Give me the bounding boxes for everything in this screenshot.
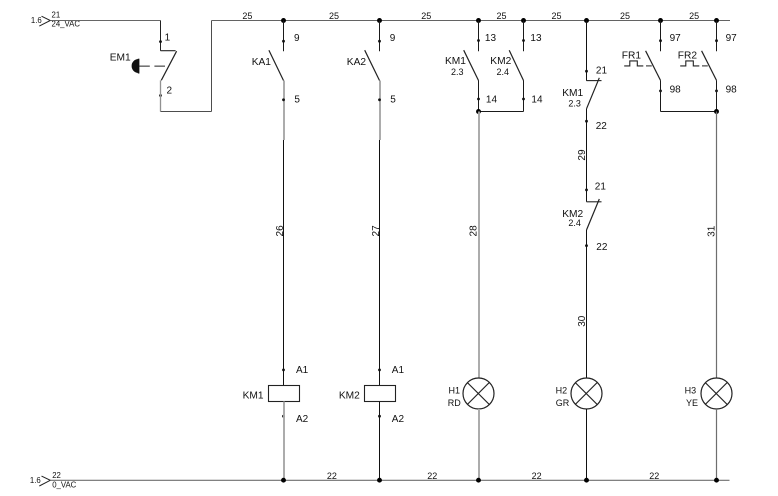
node pin 22 of KM1-NC (585, 120, 588, 123)
svg-text:FR2: FR2 (678, 50, 698, 61)
node pin 21 of KM1-NC (585, 70, 588, 73)
svg-text:25: 25 (620, 11, 630, 21)
svg-text:2: 2 (167, 86, 173, 97)
wire KM1-NO top stub (478, 21, 480, 52)
svg-text:A2: A2 (392, 414, 405, 425)
node pin 22 of KM2-NC (585, 244, 588, 247)
svg-text:5: 5 (390, 95, 396, 106)
node pin 14 of KM1 (477, 98, 480, 101)
svg-text:A1: A1 (296, 365, 309, 376)
svg-text:22: 22 (52, 471, 61, 480)
wire FR2 lower stub (716, 80, 718, 111)
junction node rail/H3 (714, 478, 719, 483)
contact KA1 (NO) (269, 50, 284, 80)
svg-text:2.4: 2.4 (568, 218, 581, 228)
coil KM2 (365, 386, 396, 402)
svg-text:0_VAC: 0_VAC (52, 480, 76, 489)
svg-text:KM1: KM1 (445, 56, 466, 67)
svg-text:1.6: 1.6 (31, 16, 42, 25)
lamp H3 (YE) (701, 378, 732, 409)
node pin 13 of KM2 (522, 39, 525, 42)
svg-text:25: 25 (496, 11, 506, 21)
svg-text:25: 25 (242, 11, 252, 21)
lamp H1 (RD) (463, 378, 494, 409)
wire riser to top rail (211, 21, 213, 112)
junction node rail/KM2-A2 (377, 478, 382, 483)
contact KA2 (NO) (365, 50, 380, 80)
junction node rail/KA2 (377, 18, 382, 23)
wire 27 (379, 140, 381, 386)
contact KM2 2.4 (NO) (509, 50, 523, 80)
contact FR2 97-98 (NO, thermal relay) (680, 51, 716, 81)
svg-text:25: 25 (551, 11, 561, 21)
svg-text:FR1: FR1 (622, 50, 642, 61)
contact FR1 97-98 (NO, thermal relay) (624, 51, 660, 81)
node pin 2 of EM1 (159, 94, 162, 97)
node pin A2 of KM2 coil (378, 415, 381, 418)
svg-text:H2: H2 (556, 385, 568, 395)
wire H1 to bottom rail (478, 409, 480, 480)
wire EM1 bottom stub (160, 80, 162, 111)
svg-text:97: 97 (726, 33, 738, 44)
svg-text:KA2: KA2 (347, 57, 367, 68)
node pin A1 of KM2 coil (378, 369, 381, 372)
svg-text:26: 26 (275, 225, 286, 237)
svg-text:A2: A2 (296, 414, 309, 425)
node pin A1 of KM1 coil (282, 369, 285, 372)
contact KM1 2.3 (NO) (464, 50, 479, 80)
svg-text:H3: H3 (685, 385, 697, 395)
svg-text:25: 25 (329, 11, 339, 21)
svg-text:RD: RD (448, 398, 461, 408)
node pin 97 of FR1 (659, 39, 662, 42)
svg-text:H1: H1 (449, 385, 461, 395)
wire FR1 top stub (660, 21, 662, 52)
wire 30 (586, 230, 588, 379)
svg-text:KM2: KM2 (339, 390, 360, 401)
svg-text:97: 97 (670, 33, 682, 44)
svg-text:13: 13 (530, 33, 542, 44)
node pin 98 of FR2 (715, 90, 718, 93)
wire EM1 top stub (160, 21, 162, 51)
wire 26 (283, 140, 285, 386)
wire 28 (478, 112, 480, 379)
svg-text:EM1: EM1 (110, 52, 131, 63)
junction node rail/KM2-13 (521, 18, 526, 23)
wire 25 top rail (212, 20, 731, 22)
node pin 98 of FR1 (659, 90, 662, 93)
wire H2 to bottom rail (586, 409, 588, 480)
svg-text:29: 29 (577, 149, 588, 161)
junction node KM1-14/KM2-14 (476, 109, 481, 114)
contact KM2 2.4 (NC) (587, 199, 602, 230)
svg-text:KA1: KA1 (252, 57, 272, 68)
svg-text:22: 22 (596, 242, 608, 253)
wire FR1 merge horizontal (661, 111, 717, 113)
svg-text:98: 98 (726, 85, 738, 96)
node pin 5 of KA2 (378, 98, 381, 101)
svg-text:14: 14 (486, 94, 498, 105)
svg-text:14: 14 (531, 94, 543, 105)
node pin 9 of KA2 (378, 40, 381, 43)
wire KM2 coil to bottom rail (379, 402, 381, 481)
wire 21 24_VAC feed (50, 20, 160, 22)
svg-text:A1: A1 (392, 365, 405, 376)
wire KM2-NO top stub (523, 21, 525, 52)
wire FR1 lower stub (660, 80, 662, 111)
node pin 21 of KM2-NC (585, 189, 588, 192)
node pin 97 of FR2 (715, 39, 718, 42)
svg-text:5: 5 (294, 95, 300, 106)
wire EM1 to riser horizontal (161, 111, 212, 113)
junction node rail/FR1 (658, 18, 663, 23)
node pin 1 of EM1 (159, 40, 162, 43)
wire 31 (716, 112, 718, 379)
node pin 14 of KM2 (522, 98, 525, 101)
wire KM1-NC top stub (586, 21, 588, 81)
wire KA1 top stub (283, 21, 285, 52)
svg-text:GR: GR (556, 398, 570, 408)
off-page connector 0_VAC (return) (30, 471, 77, 489)
contact KM1 2.3 (NC) (587, 78, 602, 109)
svg-text:98: 98 (670, 85, 682, 96)
svg-text:21: 21 (596, 66, 608, 77)
wire H3 to bottom rail (716, 409, 718, 480)
svg-text:25: 25 (421, 11, 431, 21)
lamp H2 (GR) (571, 378, 602, 409)
junction node rail/FR2 (714, 18, 719, 23)
svg-text:22: 22 (532, 471, 542, 481)
node pin A2 of KM1 coil (282, 415, 285, 418)
wire FR2 top stub (716, 21, 718, 52)
wire 29 (586, 109, 588, 202)
wire KA2 top stub (379, 21, 381, 52)
svg-text:22: 22 (427, 471, 437, 481)
svg-text:1.6: 1.6 (30, 476, 41, 485)
svg-text:30: 30 (577, 315, 588, 327)
svg-text:KM2: KM2 (490, 56, 511, 67)
svg-text:1: 1 (165, 33, 171, 44)
wire KM1 coil to bottom rail (283, 402, 285, 481)
svg-text:9: 9 (390, 33, 396, 44)
coil KM1 (269, 386, 300, 402)
svg-text:9: 9 (294, 33, 300, 44)
svg-text:22: 22 (327, 471, 337, 481)
wire KA2 lower stub (379, 81, 381, 141)
off-page connector 24_VAC (source) (31, 11, 80, 29)
pushbutton EM1 (NC mushroom-head emergency stop) (132, 51, 177, 81)
wire KM2-NO merge horizontal (479, 111, 524, 113)
node pin 9 of KA1 (282, 40, 285, 43)
svg-text:22: 22 (596, 121, 608, 132)
svg-text:YE: YE (686, 398, 698, 408)
svg-text:21: 21 (52, 11, 61, 20)
svg-text:31: 31 (706, 225, 717, 237)
wire KA1 lower stub (283, 81, 285, 141)
wire KM1-NO lower stub (478, 81, 480, 112)
svg-text:22: 22 (649, 471, 659, 481)
svg-text:2.4: 2.4 (497, 67, 510, 77)
node pin 5 of KA1 (282, 98, 285, 101)
svg-text:27: 27 (371, 225, 382, 237)
node pin 13 of KM1 (477, 39, 480, 42)
svg-text:25: 25 (689, 11, 699, 21)
svg-text:KM1: KM1 (243, 390, 264, 401)
junction node rail/H2 (584, 478, 589, 483)
junction node rail/KM1-A2 (281, 478, 286, 483)
junction node rail/KA1 (281, 18, 286, 23)
junction node rail/KM1-13 (476, 18, 481, 23)
junction node rail/KM1-21 (584, 18, 589, 23)
svg-text:2.3: 2.3 (451, 67, 464, 77)
wire KM2-NO lower stub (523, 81, 525, 112)
junction node rail/H1 (476, 478, 481, 483)
svg-text:2.3: 2.3 (568, 98, 581, 108)
svg-text:28: 28 (469, 225, 480, 237)
svg-text:13: 13 (485, 33, 497, 44)
svg-text:21: 21 (595, 181, 607, 192)
wire 22 bottom rail (50, 479, 729, 481)
junction node FR1/FR2 (714, 109, 719, 114)
